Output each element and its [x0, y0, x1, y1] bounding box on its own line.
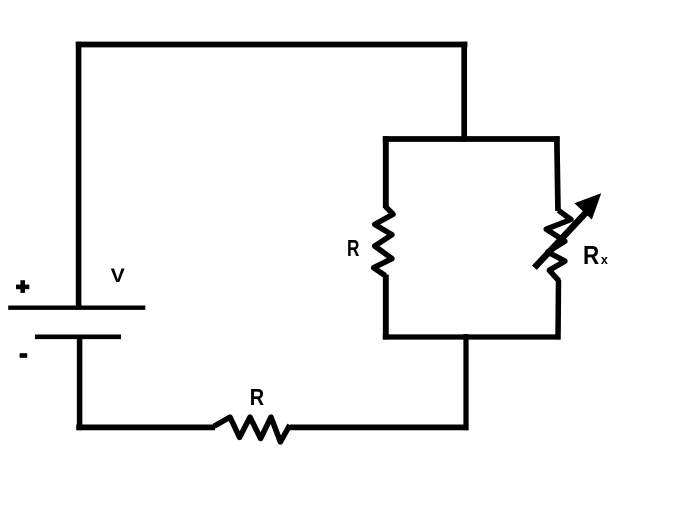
svg-text:R: R	[583, 240, 599, 270]
wire left branch upper	[383, 136, 389, 208]
battery V negative plate	[35, 334, 121, 339]
battery V positive plate	[8, 306, 145, 310]
resistor R (bottom) zigzag	[214, 417, 290, 442]
svg-text:V: V	[111, 266, 126, 287]
wire bottom horizontal left segment	[76, 425, 215, 431]
label - (battery negative)	[20, 353, 28, 358]
variable resistor Rx arrow shaft	[534, 212, 587, 268]
wire left vertical (bottom of battery)	[77, 337, 83, 430]
wire right branch upper	[557, 136, 558, 211]
svg-text:x: x	[601, 253, 608, 267]
wire left vertical (top of battery)	[76, 42, 82, 310]
resistor R (left branch) zigzag	[374, 207, 394, 276]
wire parallel box top	[383, 136, 560, 142]
label + (battery positive)	[16, 280, 29, 293]
wire top horizontal	[76, 42, 468, 48]
wire feed vertical to parallel box (top)	[461, 42, 467, 142]
svg-text:R: R	[347, 235, 359, 261]
wire left branch lower	[383, 275, 389, 340]
wire parallel box bottom	[383, 334, 560, 339]
wire right branch lower	[555, 280, 561, 340]
svg-text:R: R	[250, 384, 264, 410]
variable resistor Rx arrowhead	[576, 195, 600, 219]
resistor Rx zigzag	[546, 210, 571, 281]
wire feed vertical from parallel box (bottom)	[463, 334, 468, 430]
wire bottom horizontal right segment	[290, 425, 469, 431]
